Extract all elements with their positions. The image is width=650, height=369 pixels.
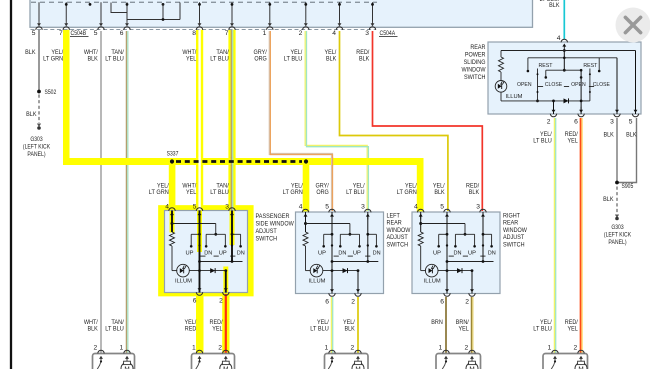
- svg-text:4: 4: [299, 204, 303, 211]
- svg-text:BLK: BLK: [26, 111, 37, 118]
- svg-text:PANEL): PANEL): [27, 152, 45, 158]
- svg-text:DN: DN: [338, 251, 346, 257]
- svg-text:7: 7: [59, 30, 63, 37]
- svg-text:UP: UP: [318, 251, 326, 257]
- svg-text:4: 4: [414, 204, 418, 211]
- svg-text:YEL: YEL: [186, 56, 197, 63]
- svg-text:DN: DN: [488, 251, 496, 257]
- svg-text:1: 1: [547, 345, 551, 352]
- svg-text:CLOSE: CLOSE: [545, 82, 562, 88]
- svg-text:BLK: BLK: [326, 56, 337, 63]
- svg-text:5: 5: [32, 30, 36, 37]
- svg-text:LT BLU: LT BLU: [284, 56, 303, 63]
- svg-text:1: 1: [263, 30, 267, 37]
- svg-text:G303: G303: [611, 225, 624, 231]
- svg-text:3: 3: [610, 119, 614, 126]
- svg-text:BLK: BLK: [469, 189, 480, 196]
- svg-text:SWITCH: SWITCH: [256, 236, 278, 243]
- svg-text:6: 6: [193, 298, 197, 305]
- svg-text:LT GRN: LT GRN: [397, 189, 417, 196]
- svg-text:OPEN: OPEN: [571, 82, 586, 88]
- svg-text:REST: REST: [583, 63, 597, 69]
- svg-text:1: 1: [119, 345, 123, 352]
- svg-text:LT BLU: LT BLU: [533, 326, 552, 333]
- svg-text:ADJUST: ADJUST: [503, 234, 524, 241]
- svg-text:2: 2: [218, 345, 222, 352]
- svg-text:2: 2: [219, 298, 223, 305]
- svg-text:2: 2: [573, 345, 577, 352]
- svg-text:2: 2: [547, 119, 551, 126]
- svg-text:WINDOW: WINDOW: [503, 227, 528, 234]
- svg-text:REAR: REAR: [387, 220, 402, 227]
- svg-text:UP: UP: [219, 251, 227, 257]
- svg-text:ILLUM: ILLUM: [175, 279, 192, 285]
- svg-text:LEFT: LEFT: [387, 213, 400, 220]
- svg-text:4: 4: [332, 30, 336, 37]
- svg-text:SIDE WINDOW: SIDE WINDOW: [256, 221, 295, 228]
- svg-text:LT GRN: LT GRN: [149, 189, 169, 196]
- svg-text:3: 3: [225, 204, 229, 211]
- svg-text:1: 1: [324, 345, 328, 352]
- svg-text:5: 5: [629, 119, 633, 126]
- svg-text:BLK: BLK: [344, 326, 355, 333]
- svg-text:UP: UP: [468, 251, 476, 257]
- svg-text:4: 4: [557, 35, 561, 42]
- svg-text:ILLUM: ILLUM: [506, 94, 523, 100]
- svg-text:(LEFT KICK: (LEFT KICK: [604, 233, 631, 239]
- svg-text:BLK: BLK: [603, 132, 614, 139]
- svg-text:SWITCH: SWITCH: [464, 74, 486, 81]
- svg-text:2: 2: [350, 345, 354, 352]
- svg-text:S337: S337: [167, 152, 179, 158]
- svg-text:RED: RED: [185, 326, 197, 333]
- svg-text:DN: DN: [204, 251, 212, 257]
- svg-text:6: 6: [325, 299, 329, 306]
- svg-text:ADJUST: ADJUST: [256, 228, 277, 235]
- svg-text:BLK: BLK: [87, 56, 98, 63]
- svg-text:WINDOW: WINDOW: [387, 227, 412, 234]
- svg-text:3: 3: [476, 204, 480, 211]
- svg-text:ORG: ORG: [316, 189, 328, 196]
- svg-text:8: 8: [192, 30, 196, 37]
- svg-text:5: 5: [325, 204, 329, 211]
- svg-text:YEL: YEL: [567, 326, 578, 333]
- svg-text:YEL: YEL: [458, 326, 469, 333]
- svg-text:REAR: REAR: [470, 44, 485, 51]
- svg-text:LT GRN: LT GRN: [43, 56, 63, 63]
- svg-text:6: 6: [440, 299, 444, 306]
- svg-text:REAR: REAR: [503, 220, 518, 227]
- svg-text:SWITCH: SWITCH: [503, 241, 525, 248]
- svg-text:LT GRN: LT GRN: [283, 189, 303, 196]
- svg-text:POWER: POWER: [465, 52, 486, 59]
- svg-text:OPEN: OPEN: [517, 82, 532, 88]
- svg-text:2: 2: [299, 30, 303, 37]
- svg-text:7: 7: [225, 30, 229, 37]
- svg-text:UP: UP: [433, 251, 441, 257]
- svg-text:LT BLU: LT BLU: [105, 326, 124, 333]
- svg-text:YEL: YEL: [567, 137, 578, 144]
- svg-text:G303: G303: [30, 137, 43, 143]
- svg-text:ORG: ORG: [254, 56, 266, 63]
- svg-text:3: 3: [361, 204, 365, 211]
- svg-text:CLOSE: CLOSE: [593, 82, 610, 88]
- svg-text:ILLUM: ILLUM: [424, 279, 441, 285]
- svg-text:S905: S905: [622, 184, 634, 190]
- svg-text:PASSENGER: PASSENGER: [256, 213, 290, 220]
- svg-text:DN: DN: [454, 251, 462, 257]
- svg-text:1: 1: [192, 345, 196, 352]
- svg-text:2: 2: [93, 345, 97, 352]
- svg-text:UP: UP: [186, 251, 194, 257]
- svg-text:ADJUST: ADJUST: [387, 234, 408, 241]
- svg-text:5: 5: [193, 204, 197, 211]
- svg-text:2: 2: [464, 345, 468, 352]
- svg-text:(LEFT KICK: (LEFT KICK: [23, 145, 50, 151]
- svg-text:LT BLU: LT BLU: [210, 56, 229, 63]
- svg-text:LT BLU: LT BLU: [346, 189, 365, 196]
- svg-text:6: 6: [574, 119, 578, 126]
- svg-text:BLK: BLK: [434, 189, 445, 196]
- svg-text:4: 4: [165, 204, 169, 211]
- svg-text:3: 3: [365, 30, 369, 37]
- svg-text:LT BLU: LT BLU: [533, 137, 552, 144]
- svg-text:BLK: BLK: [603, 196, 614, 203]
- svg-text:WINDOW: WINDOW: [462, 67, 487, 74]
- svg-text:BLK: BLK: [549, 2, 560, 9]
- svg-text:BLK: BLK: [25, 49, 36, 56]
- svg-text:S502: S502: [45, 90, 57, 96]
- svg-text:LT BLU: LT BLU: [105, 56, 124, 63]
- svg-text:LT BLU: LT BLU: [310, 326, 329, 333]
- svg-text:UP: UP: [353, 251, 361, 257]
- svg-text:REST: REST: [539, 63, 553, 69]
- svg-text:C504B: C504B: [71, 30, 87, 37]
- svg-text:PANEL): PANEL): [608, 240, 626, 246]
- svg-text:ILLUM: ILLUM: [309, 279, 326, 285]
- svg-text:SLIDING: SLIDING: [464, 59, 486, 66]
- svg-text:2: 2: [351, 299, 355, 306]
- svg-text:BLK: BLK: [626, 132, 637, 139]
- svg-text:BLK: BLK: [359, 56, 370, 63]
- svg-text:5: 5: [440, 204, 444, 211]
- svg-text:LT BLU: LT BLU: [210, 189, 229, 196]
- svg-text:DN: DN: [237, 251, 245, 257]
- svg-text:DN: DN: [373, 251, 381, 257]
- svg-text:C504A: C504A: [380, 30, 396, 37]
- svg-text:1: 1: [438, 345, 442, 352]
- svg-text:RIGHT: RIGHT: [503, 213, 520, 220]
- svg-text:6: 6: [120, 30, 124, 37]
- svg-text:YEL: YEL: [212, 326, 223, 333]
- svg-text:SWITCH: SWITCH: [387, 241, 409, 248]
- svg-text:YEL: YEL: [186, 189, 197, 196]
- svg-text:BLK: BLK: [87, 326, 98, 333]
- svg-text:BRN: BRN: [431, 319, 443, 326]
- svg-text:5: 5: [94, 30, 98, 37]
- svg-text:2: 2: [465, 299, 469, 306]
